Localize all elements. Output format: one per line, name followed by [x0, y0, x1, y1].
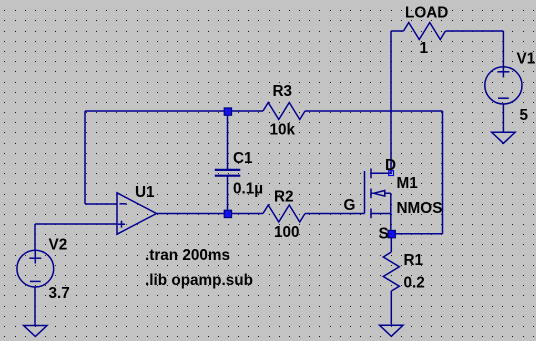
svg-text:S: S	[379, 226, 389, 243]
svg-text:100: 100	[274, 224, 300, 241]
wire node S to R1	[390, 234, 392, 252]
svg-text:LOAD: LOAD	[405, 4, 448, 21]
svg-text:M1: M1	[397, 175, 419, 192]
resistor LOAD	[404, 23, 446, 40]
ground (R1)	[380, 325, 403, 336]
node junction C1 top	[224, 108, 231, 115]
wire feedback bottom to node S	[391, 233, 442, 235]
node junction S	[388, 230, 395, 237]
resistor R3	[263, 103, 305, 120]
wire R1 to ground	[390, 291, 392, 325]
wire V1 bottom stem	[502, 104, 504, 132]
transistor M1 (NMOS)	[365, 169, 392, 234]
voltage source V1	[485, 67, 522, 104]
svg-text:0.2: 0.2	[404, 275, 425, 292]
svg-text:5: 5	[520, 107, 529, 124]
resistor R2	[263, 205, 305, 222]
svg-text:.lib opamp.sub: .lib opamp.sub	[145, 272, 253, 289]
svg-text:NMOS: NMOS	[397, 200, 443, 217]
resistor R1	[383, 252, 399, 291]
svg-text:10k: 10k	[270, 122, 296, 139]
svg-text:1: 1	[420, 40, 429, 57]
wire drain vertical (LOAD left down to D pin)	[390, 31, 392, 173]
capacitor C1	[215, 111, 241, 214]
op-amp U1	[117, 193, 157, 234]
wire to op-amp inverting input	[85, 203, 117, 205]
svg-text:0.1µ: 0.1µ	[233, 181, 263, 198]
wire R3 right to feedback corner	[305, 110, 443, 112]
svg-text:.tran 200ms: .tran 200ms	[145, 247, 230, 264]
svg-text:V1: V1	[517, 51, 536, 68]
wire R2 to gate of M1	[305, 213, 365, 215]
svg-text:3.7: 3.7	[49, 285, 70, 302]
wire LOAD left lead	[391, 30, 404, 32]
svg-text:C1: C1	[233, 150, 253, 167]
pin D open square	[389, 171, 394, 176]
svg-text:U1: U1	[135, 184, 155, 201]
wire LOAD right to V1	[446, 30, 504, 32]
wire junction to R2	[228, 213, 264, 215]
svg-text:G: G	[344, 197, 356, 214]
ground (V2)	[24, 326, 47, 337]
wire feedback right vertical	[442, 111, 444, 234]
wire op-amp output to C1 bottom junction	[157, 213, 228, 215]
svg-text:R2: R2	[274, 189, 294, 206]
node junction C1 bottom	[224, 210, 231, 217]
svg-text:R3: R3	[273, 83, 293, 100]
wire V1 top stem	[502, 31, 504, 67]
svg-text:D: D	[385, 157, 396, 174]
wire V2 bottom stem	[34, 287, 36, 326]
svg-text:R1: R1	[404, 252, 424, 269]
wire V2 to op-amp non-inverting input	[35, 223, 117, 225]
svg-text:V2: V2	[49, 237, 68, 254]
voltage source V2	[17, 250, 54, 287]
wire feedback top horizontal (R3 left to C1 junction)	[85, 110, 263, 112]
wire V2 top stem	[34, 224, 36, 251]
wire feedback left vertical	[84, 111, 86, 204]
ground (V1)	[492, 132, 515, 143]
